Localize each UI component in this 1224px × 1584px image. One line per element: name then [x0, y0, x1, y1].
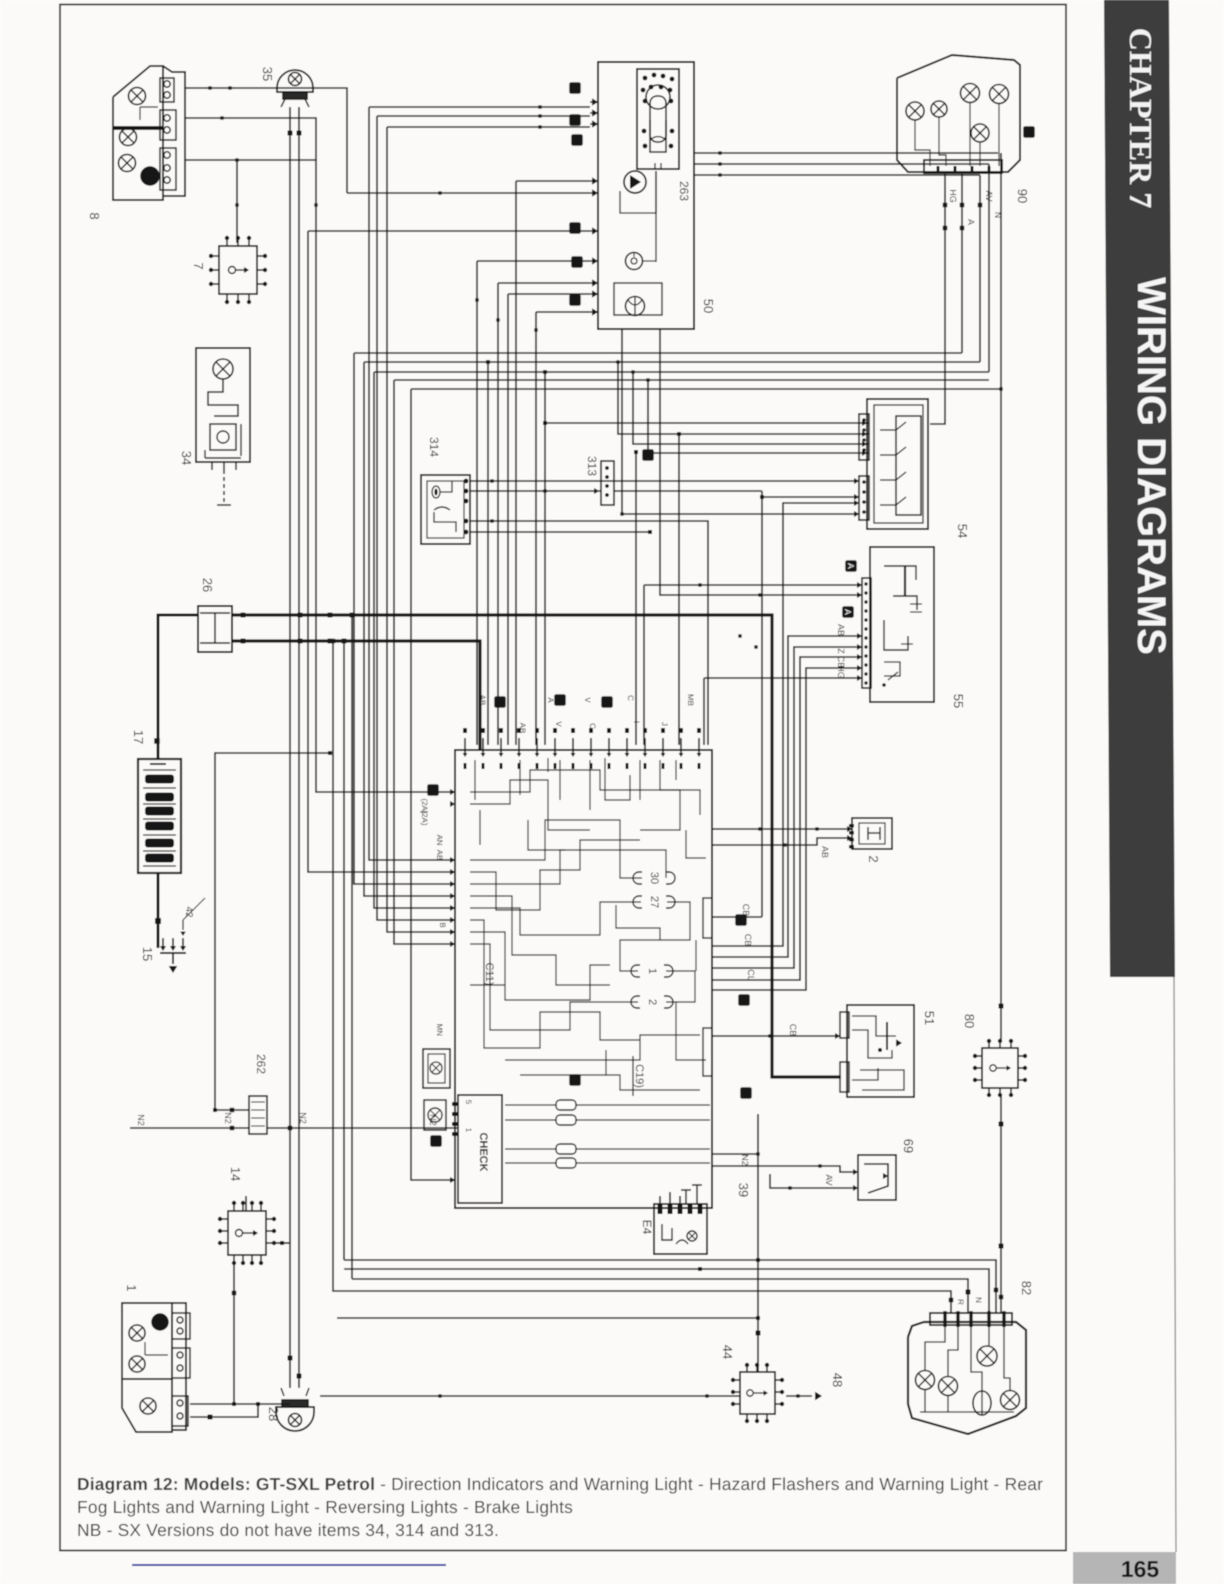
wire hub to 55 pin5 — [712, 657, 862, 980]
svg-text:17: 17 — [131, 730, 146, 744]
wire junction — [538, 105, 541, 108]
svg-text:CHAPTER 7: CHAPTER 7 — [1123, 28, 1159, 208]
switch 55 — [862, 547, 934, 702]
svg-text:N2: N2 — [740, 1154, 750, 1166]
pin arrow — [896, 1039, 902, 1046]
blue footer mark — [132, 1564, 446, 1566]
pin arrow — [169, 966, 178, 973]
wire to 54 pin1 — [545, 422, 869, 424]
wire to 50 pin c — [387, 126, 590, 128]
svg-text:39: 39 — [736, 1183, 751, 1197]
wire drop g to hub — [476, 261, 478, 745]
E4 pin tail 3 — [679, 1196, 681, 1208]
drop 55a — [643, 585, 645, 745]
warning lamp triangle in 50 — [620, 171, 656, 262]
wire junction — [256, 1402, 260, 1406]
wire junction — [705, 1394, 708, 1397]
wire junction — [297, 1374, 302, 1379]
wire junction — [350, 613, 355, 618]
svg-text:I: I — [632, 721, 641, 723]
wire junction — [960, 203, 965, 208]
bundle bottom 3 — [352, 1279, 968, 1313]
wire to 54 lower1 — [762, 496, 859, 498]
pin arrow — [697, 753, 702, 757]
wire 50 bottom to 54 lower2 — [622, 330, 859, 514]
svg-text:C19): C19) — [633, 1064, 645, 1088]
svg-text:NB - SX Versions do not have i: NB - SX Versions do not have items 34, 3… — [77, 1520, 499, 1540]
svg-text:42: 42 — [183, 906, 194, 918]
wire to 69 lower — [770, 1174, 853, 1188]
pin arrow — [592, 279, 598, 286]
wire drop h to hub — [497, 283, 499, 745]
wire junction — [949, 1298, 954, 1303]
wire 90 leg1 to switch 54 — [930, 174, 945, 424]
wire hub to 44 branch — [712, 1153, 758, 1155]
wire code tag — [1023, 126, 1035, 138]
wire 8 to hub — [185, 118, 455, 792]
E4 pin tail 2 — [669, 1192, 671, 1208]
pin arrow — [854, 511, 859, 517]
wire junction — [235, 158, 238, 161]
wire m1 drop to hub — [354, 353, 455, 884]
wire junction — [328, 751, 332, 755]
pins of 50 — [590, 98, 598, 315]
pin arrow — [450, 893, 455, 899]
wire 14 top stub — [245, 1196, 247, 1211]
pin arrow — [592, 189, 598, 196]
pin arrow — [180, 932, 186, 937]
wire bundle m4 — [394, 379, 989, 381]
pin arrow — [517, 753, 522, 757]
wire junction — [760, 495, 764, 499]
svg-text:26: 26 — [200, 578, 215, 592]
wire junction — [698, 583, 701, 586]
svg-text:B: B — [438, 922, 447, 927]
switch 54 — [859, 399, 928, 529]
wire hub to 55 pin4 — [712, 647, 862, 968]
wire junction — [154, 738, 160, 744]
wire code tag — [569, 114, 581, 126]
wire junction — [288, 131, 293, 136]
wire junction — [241, 639, 246, 644]
switch 34 — [196, 348, 250, 505]
wire junction — [788, 1186, 791, 1189]
svg-text:CB: CB — [743, 934, 753, 947]
pin arrow — [170, 946, 176, 951]
wire 14 to 35/28 line — [274, 1242, 290, 1244]
wire hub to 51 — [712, 1035, 840, 1037]
lamp 28 — [276, 1388, 314, 1431]
wire junction — [490, 519, 493, 522]
wire junction — [718, 173, 721, 176]
pin arrow — [450, 917, 455, 923]
svg-text:82: 82 — [1019, 1281, 1034, 1295]
capsule links in hub — [505, 1100, 710, 1168]
wire m5 drop to hub — [411, 389, 455, 1180]
wire junction — [208, 86, 211, 89]
pin arrow — [450, 801, 455, 807]
wire junction — [486, 360, 490, 364]
bold wire 26 to hub — [232, 641, 480, 750]
wire junction — [298, 613, 303, 618]
wire junction — [978, 203, 983, 208]
pin arrow — [592, 98, 598, 105]
pin arrow — [589, 753, 594, 757]
wire junction — [232, 1291, 237, 1296]
wire junction — [438, 191, 441, 194]
pin arrow — [854, 500, 859, 506]
wire drop j to hub — [535, 312, 537, 745]
wire junction — [314, 203, 317, 206]
wire drop c to hub — [387, 127, 455, 932]
wire junction — [758, 593, 761, 596]
svg-text:5: 5 — [464, 1100, 473, 1105]
pin arrow — [847, 826, 852, 832]
wire junction — [616, 360, 619, 363]
flasher unit 14 — [218, 1201, 276, 1265]
wire bundle m5 — [411, 388, 1001, 390]
wire junction — [543, 489, 546, 492]
flasher 44 — [731, 1363, 784, 1423]
wire to 50 pin e — [347, 192, 590, 194]
pin arrow — [847, 835, 852, 841]
bundle drop b — [351, 615, 353, 1279]
wire junction — [298, 639, 303, 644]
wire code tag — [740, 1087, 752, 1099]
wire bundle to 54 pin4 — [648, 380, 869, 453]
svg-text:WIRING DIAGRAMS: WIRING DIAGRAMS — [1129, 277, 1173, 655]
pin arrow — [857, 582, 862, 588]
wire junction — [783, 843, 786, 846]
pin arrow — [180, 946, 186, 951]
wire 35 right leg to 28 — [298, 107, 300, 1388]
pin arrow — [857, 675, 862, 681]
lamp cluster 1 — [122, 1303, 190, 1432]
svg-text:262: 262 — [254, 1054, 268, 1074]
wire hub to 55 pin3 — [712, 636, 862, 957]
svg-text:E4: E4 — [640, 1220, 654, 1235]
lamp cluster 8 — [113, 66, 185, 200]
wire drop x636 — [635, 452, 637, 745]
svg-text:MB: MB — [686, 694, 695, 706]
switch 69 — [853, 1155, 896, 1200]
pin arrow — [450, 905, 455, 911]
wire junction — [646, 378, 649, 381]
battery 17 — [138, 759, 181, 873]
wire 90 leg2 to bundle m1 — [961, 174, 963, 353]
svg-text:7: 7 — [191, 262, 206, 269]
bundle bottom 5 — [337, 1317, 758, 1319]
wire junction — [738, 634, 741, 637]
wire code tag — [735, 914, 747, 926]
relay 7 — [209, 236, 267, 304]
svg-text:AN: AN — [435, 834, 444, 845]
pin arrow — [625, 753, 630, 757]
wire drop f to hub — [308, 231, 455, 872]
gauge lamp in 50 — [626, 253, 657, 270]
pin arrow — [592, 177, 598, 184]
wire 1 lower — [190, 1404, 258, 1417]
hub stub y917 — [712, 916, 762, 918]
svg-text:14: 14 — [228, 1167, 243, 1181]
wire hub to 69 upper — [712, 1166, 853, 1172]
hub right edge connector block b — [703, 1028, 712, 1076]
wire junction — [543, 421, 547, 425]
wire junction — [543, 370, 547, 374]
wire junction — [241, 613, 246, 618]
svg-text:8: 8 — [87, 212, 102, 219]
wire junction — [490, 479, 493, 482]
pin arrow — [857, 633, 862, 639]
wire junction to relay 7 — [236, 160, 238, 243]
pin arrow — [643, 753, 648, 757]
wire drop x679 — [678, 434, 680, 745]
wire junction — [718, 151, 721, 154]
wire 90 leg3 to bundle m2 — [979, 175, 981, 362]
wire junction — [756, 1331, 761, 1336]
svg-text:2: 2 — [646, 999, 658, 1005]
wire code tag — [842, 606, 854, 618]
wire to 50 pin d — [516, 180, 590, 182]
wire junction — [155, 918, 161, 924]
wire junction — [620, 512, 623, 515]
wire junction — [475, 298, 478, 301]
pin arrow — [450, 941, 455, 947]
svg-text:27: 27 — [648, 896, 660, 908]
pin arrow — [594, 488, 599, 494]
svg-text:35: 35 — [260, 67, 275, 81]
connector E2 on hub — [423, 1049, 450, 1088]
svg-text:N: N — [993, 212, 1003, 219]
svg-text:50: 50 — [701, 299, 716, 313]
wire drop x762 to hub — [761, 491, 763, 917]
wire junction — [677, 432, 681, 436]
wire m3 drop to hub — [374, 372, 455, 908]
wire to 55 pin1 — [644, 584, 862, 586]
wire junction — [342, 639, 347, 644]
wire bundle to 54 pin3 — [633, 372, 869, 444]
pin arrow — [450, 881, 455, 887]
svg-text:A: A — [846, 563, 856, 569]
svg-text:1: 1 — [464, 1128, 473, 1133]
wire 26 area down to bottom bundle — [333, 641, 337, 1291]
svg-text:90: 90 — [1015, 189, 1030, 203]
bundle drop a — [343, 641, 345, 1260]
wire bundle to 54 pin2 — [618, 362, 869, 434]
svg-text:N2: N2 — [136, 1114, 146, 1126]
svg-text:C: C — [626, 695, 635, 701]
wire junction — [235, 203, 238, 206]
instrument cluster 50 — [598, 62, 694, 329]
wire 8 lower to junction — [185, 159, 316, 161]
wire junction — [754, 645, 757, 648]
svg-text:N2: N2 — [298, 1112, 308, 1124]
wire junction — [331, 639, 336, 644]
bundle bottom 4 — [337, 1291, 951, 1313]
wire 1 to 14 line — [190, 1403, 290, 1405]
wire code tag — [569, 222, 581, 234]
svg-text:V: V — [583, 697, 592, 703]
pin arrow — [862, 450, 867, 456]
wire junction — [230, 1126, 235, 1131]
wire 26 to battery 17 — [158, 615, 198, 759]
wire junction — [232, 1402, 236, 1406]
wire 313 right — [614, 490, 762, 492]
junction unit hub — [455, 750, 712, 1208]
svg-text:80: 80 — [962, 1014, 977, 1028]
svg-text:Diagram 12: Models: GT-SXL Pet: Diagram 12: Models: GT-SXL Petrol - Dire… — [77, 1474, 1043, 1494]
wire code tag — [430, 1135, 442, 1147]
pin arrow — [592, 109, 598, 116]
svg-text:A: A — [966, 219, 976, 225]
wire junction — [999, 1004, 1004, 1009]
pin arrow — [463, 753, 468, 757]
wire drop x488 to hub — [487, 362, 489, 745]
wire junction — [634, 450, 638, 454]
svg-text:J: J — [660, 722, 669, 726]
wire junction — [208, 1415, 213, 1420]
wire code tag — [569, 82, 581, 94]
svg-text:314: 314 — [427, 437, 441, 457]
pin arrow — [450, 857, 455, 863]
CHECK control unit — [452, 1095, 502, 1203]
svg-text:55: 55 — [951, 694, 966, 708]
pin arrow — [553, 753, 558, 757]
wire 8 to 50 feed — [185, 88, 347, 193]
pin arrow — [571, 753, 576, 757]
bundle bottom 1 — [344, 1260, 996, 1313]
wire junction — [297, 131, 302, 136]
wire hub to connector 2 upper — [712, 828, 852, 830]
svg-text:AB: AB — [435, 850, 444, 861]
hazard switch 263 — [637, 69, 679, 169]
pin arrow — [854, 494, 859, 500]
wire junction — [328, 613, 333, 618]
wire junction — [999, 387, 1002, 390]
pin arrow — [499, 753, 504, 757]
hub internal wiring — [470, 758, 706, 1090]
wire to 50 pin j — [536, 311, 590, 313]
pin arrow — [592, 308, 598, 315]
wire 50 to 90 leg3 — [694, 174, 980, 176]
pin arrow — [857, 654, 862, 660]
pin arrow — [607, 753, 612, 757]
pin arrow — [450, 929, 455, 935]
wire junction — [718, 162, 721, 165]
svg-text:CHECK: CHECK — [477, 1132, 489, 1171]
wire into 262 — [130, 1127, 249, 1129]
wire m2 drop to hub — [364, 362, 455, 896]
svg-text:AB: AB — [820, 846, 830, 858]
wire to 50 pin h — [498, 282, 590, 284]
svg-text:HG: HG — [948, 189, 958, 203]
wire junction — [228, 86, 231, 89]
pin arrow — [253, 1230, 258, 1236]
wire to 50 pin b — [377, 115, 590, 117]
wire drop a to hub — [369, 107, 455, 860]
wire junction — [756, 1152, 759, 1155]
connector 314 — [421, 475, 470, 544]
wire junction — [994, 1288, 999, 1293]
wire to 50 pin g — [477, 260, 590, 262]
ground 48 — [786, 1392, 822, 1401]
svg-text:N: N — [974, 1297, 983, 1303]
wire 262 to CHECK — [267, 1127, 458, 1129]
connector E4 — [654, 1185, 707, 1254]
hub top pin row — [463, 728, 702, 769]
svg-text:15: 15 — [140, 947, 155, 961]
wire 314 pin2 to 313 — [470, 490, 601, 492]
E4 pin tail 1 — [659, 1196, 661, 1208]
svg-text:R: R — [956, 1299, 965, 1305]
pin arrow — [160, 946, 166, 951]
pin arrow — [862, 420, 867, 426]
pin arrow — [592, 257, 598, 264]
wire junction — [758, 827, 761, 830]
svg-text:165: 165 — [1121, 1556, 1160, 1582]
relay 51 — [840, 1005, 914, 1097]
pin arrow — [535, 753, 540, 757]
hub left pin arrows — [450, 789, 455, 1183]
pin arrow — [835, 1033, 840, 1039]
svg-text:44: 44 — [720, 1345, 735, 1359]
wire junction — [796, 1394, 799, 1397]
svg-text:AV: AV — [984, 190, 994, 201]
wire junction — [768, 1034, 771, 1037]
lamp cluster 82 — [908, 1311, 1026, 1434]
wire junction — [999, 1122, 1004, 1127]
wire 1/28 to 44 — [320, 1395, 740, 1397]
chapter sidebar dark band — [1104, 0, 1175, 977]
wire 35 left leg to 28 — [289, 107, 291, 1388]
wire junction — [288, 1126, 293, 1131]
wire to 55 pin7 — [704, 677, 862, 679]
thin rule below sidebar — [1174, 977, 1176, 1552]
wire 314 pin4 — [470, 531, 650, 533]
pin arrow — [883, 1173, 888, 1179]
wire junction — [698, 1267, 702, 1271]
wire code tag — [571, 256, 583, 268]
wire junction — [438, 1394, 441, 1397]
pin arrow — [815, 1392, 822, 1401]
svg-text:2: 2 — [866, 855, 881, 862]
svg-text:313: 313 — [585, 456, 599, 476]
connector 262 — [249, 1096, 267, 1134]
svg-text:AB: AB — [836, 624, 846, 636]
wire junction — [496, 318, 499, 321]
wire 50 bottom to 55 pin2 — [660, 330, 862, 595]
svg-text:Z: Z — [836, 648, 846, 654]
wire junction — [943, 226, 948, 231]
wire junction — [534, 328, 537, 331]
wire junction — [943, 203, 948, 208]
control unit 80 — [973, 1039, 1027, 1097]
wire junction — [960, 226, 965, 231]
pin arrow — [450, 1177, 455, 1183]
wire 90 leg4 to bundle m3 — [988, 164, 990, 372]
wire code tag — [738, 994, 750, 1006]
svg-text:AV: AV — [824, 1174, 834, 1185]
connector 313 — [601, 461, 614, 505]
bundle bottom 2 — [344, 1269, 989, 1313]
svg-text:N2: N2 — [428, 1114, 438, 1126]
svg-text:AB: AB — [518, 723, 527, 734]
pin arrow — [853, 1185, 858, 1191]
pin arrow — [862, 431, 867, 437]
svg-text:C11): C11) — [483, 962, 495, 985]
pin arrow — [661, 753, 666, 757]
wire drop d to hub — [515, 181, 517, 745]
